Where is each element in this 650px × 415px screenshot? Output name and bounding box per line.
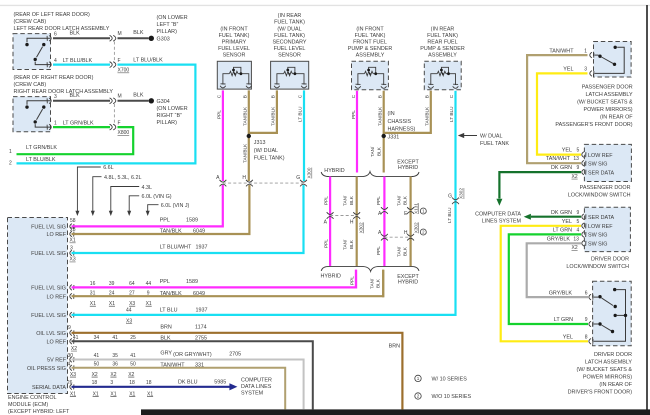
svg-text:(IN REAR: (IN REAR (278, 13, 302, 19)
svg-text:TAN/BLK: TAN/BLK (424, 106, 429, 126)
top border line (0, 4, 650, 6)
svg-text:BLK: BLK (403, 195, 408, 205)
svg-text:FUEL TANK: FUEL TANK (480, 141, 509, 147)
svg-text:3: 3 (54, 94, 57, 100)
svg-text:5V REF: 5V REF (47, 358, 67, 364)
svg-text:HARNESS): HARNESS) (388, 127, 416, 133)
svg-text:64: 64 (129, 281, 135, 287)
svg-text:41: 41 (112, 335, 118, 341)
svg-text:F: F (118, 58, 121, 64)
svg-text:50: 50 (94, 362, 100, 368)
wire TAN/BLK below brace (382, 270, 384, 298)
svg-text:27: 27 (129, 290, 135, 296)
svg-text:DRIVER DOOR: DRIVER DOOR (594, 352, 632, 358)
svg-text:X1: X1 (90, 301, 96, 307)
svg-text:PASSENGER DOOR: PASSENGER DOOR (582, 84, 633, 90)
svg-text:41: 41 (130, 353, 136, 359)
svg-text:4.8L, 5.3L, 6.2L: 4.8L, 5.3L, 6.2L (104, 175, 141, 181)
passenger door lock/window switch box (584, 144, 631, 181)
svg-text:BLK: BLK (133, 30, 144, 36)
svg-text:PPL: PPL (217, 110, 222, 119)
svg-text:PILLAR): PILLAR) (157, 120, 178, 126)
svg-text:M: M (118, 94, 122, 100)
secondary fuel level sensor box (271, 61, 309, 89)
svg-text:9: 9 (577, 210, 580, 216)
primary sensor pin C (220, 84, 226, 88)
svg-text:6.0L (VIN G): 6.0L (VIN G) (142, 194, 172, 200)
svg-text:X2: X2 (71, 346, 77, 352)
svg-text:H: H (350, 219, 354, 225)
svg-text:LT BLU: LT BLU (297, 106, 302, 122)
svg-text:LT BLU: LT BLU (160, 307, 178, 313)
svg-text:X1: X1 (147, 391, 153, 397)
svg-text:M: M (118, 31, 122, 37)
svg-text:1937: 1937 (196, 307, 208, 313)
svg-text:X2: X2 (110, 372, 116, 378)
latch1 pin 6 connector (47, 36, 51, 42)
wire PPL sensor1 C down (222, 90, 224, 181)
splice J331 (382, 134, 386, 138)
lower brace hybrid/except hybrid (321, 266, 419, 271)
svg-text:FUEL LVL SIG: FUEL LVL SIG (31, 251, 66, 257)
svg-text:(ON LOWER: (ON LOWER (157, 106, 188, 112)
wire TAN/BLK hybrid branch (356, 177, 358, 267)
svg-text:4: 4 (54, 58, 57, 64)
svg-text:LO REF: LO REF (47, 340, 67, 346)
svg-text:X3: X3 (70, 372, 76, 378)
front pump rheostat (358, 67, 384, 85)
svg-text:6.0L (VIN J): 6.0L (VIN J) (161, 203, 190, 209)
passenger switch pin 5 LOW REF (582, 152, 586, 158)
wire DK GRN passenger switch to data lines arrow (499, 172, 581, 198)
svg-text:(W/ DUAL: (W/ DUAL (254, 148, 278, 154)
svg-text:DATA LINES: DATA LINES (241, 384, 272, 390)
svg-text:1589: 1589 (186, 218, 198, 224)
svg-text:DK BLU: DK BLU (178, 380, 198, 386)
svg-text:BLK: BLK (376, 278, 381, 288)
inline connector F X800 (110, 124, 116, 130)
svg-text:X302: X302 (358, 222, 363, 233)
right rear door latch assembly box (13, 97, 51, 132)
passenger door latch assembly box (594, 42, 632, 78)
svg-text:X302: X302 (459, 188, 464, 199)
svg-text:DK GRN: DK GRN (551, 165, 572, 171)
latch2 switch (27, 101, 51, 127)
svg-text:B: B (424, 95, 429, 98)
svg-text:GRY/BLK: GRY/BLK (549, 290, 573, 296)
driver latch switch (594, 290, 626, 342)
svg-text:1: 1 (54, 121, 57, 127)
svg-text:24: 24 (109, 290, 115, 296)
wire PPL front pump C down to brace (356, 91, 358, 173)
svg-text:C: C (297, 94, 302, 98)
svg-text:1174: 1174 (195, 324, 207, 330)
driver door lock/window switch box (584, 207, 630, 251)
svg-text:4: 4 (68, 362, 71, 368)
svg-text:RIGHT REAR DOOR LATCH ASSEMBLY: RIGHT REAR DOOR LATCH ASSEMBLY (14, 89, 114, 95)
svg-text:30: 30 (68, 353, 74, 359)
svg-text:(W/ BUCKET SEATS &: (W/ BUCKET SEATS & (577, 99, 633, 105)
svg-text:X800: X800 (118, 130, 130, 136)
wire TAN/WHT 331 row10 pins 4/50/36/50 (72, 368, 286, 410)
svg-text:LT BLU/WHT: LT BLU/WHT (160, 245, 192, 251)
svg-text:5: 5 (577, 148, 580, 154)
svg-text:LATCH ASSEMBLY: LATCH ASSEMBLY (585, 92, 633, 98)
svg-text:HYBRID: HYBRID (321, 274, 341, 280)
inline connector M (110, 35, 116, 41)
svg-text:FUEL TANK): FUEL TANK) (254, 156, 285, 162)
svg-text:PUMP & SENDER: PUMP & SENDER (348, 46, 393, 52)
inline connector G X302 on LT BLU (452, 198, 459, 205)
svg-text:SW SIG: SW SIG (588, 233, 607, 239)
passenger latch switch (595, 47, 625, 73)
svg-text:B: B (377, 95, 382, 98)
driver latch pin 6 connector (589, 294, 593, 300)
svg-text:LEFT REAR DOOR LATCH ASSEMBLY: LEFT REAR DOOR LATCH ASSEMBLY (14, 26, 110, 32)
svg-text:COMPUTER: COMPUTER (241, 377, 272, 383)
wire PPL 1589 row1 pin 58 (72, 185, 223, 226)
wire LT GRN driver switch SW SIG to driver latch pin9 (509, 234, 588, 324)
svg-text:YEL: YEL (562, 219, 572, 225)
svg-text:6: 6 (54, 31, 57, 37)
svg-text:PUMP & SENDER: PUMP & SENDER (420, 46, 465, 52)
svg-text:LOW REF: LOW REF (588, 153, 613, 159)
ECM pin connectors (70, 224, 74, 390)
primary sensor rheostat (223, 67, 249, 84)
svg-text:(CREW CAB): (CREW CAB) (14, 19, 47, 25)
svg-text:LEFT “B”: LEFT “B” (157, 22, 179, 28)
wire TAN/BLK sensor1 B down (248, 90, 250, 181)
inline connector A/H X302 hybrid (330, 215, 357, 217)
svg-text:G304: G304 (157, 99, 170, 105)
svg-text:FUEL LEVEL: FUEL LEVEL (218, 46, 250, 52)
svg-text:6: 6 (585, 290, 588, 296)
wire BLK 2755 row8 pins 41/34/41/25 (72, 341, 313, 409)
svg-text:LT BLU/BLK: LT BLU/BLK (63, 58, 93, 64)
svg-text:TAN/BLK: TAN/BLK (242, 106, 247, 126)
passenger latch pin 1 connector (590, 52, 594, 58)
svg-text:X1: X1 (93, 391, 99, 397)
svg-text:W/O 10 SERIES: W/O 10 SERIES (432, 394, 472, 400)
svg-text:H: H (242, 175, 246, 181)
svg-text:6049: 6049 (193, 291, 205, 297)
upper brace hybrid/except hybrid (321, 172, 419, 177)
svg-text:X2: X2 (92, 372, 98, 378)
svg-text:3: 3 (584, 66, 587, 72)
front pump pin C (355, 84, 361, 88)
wire LT BLU/WHT 1937 row3 pin 3 (72, 185, 304, 253)
svg-text:BLK: BLK (349, 239, 354, 249)
svg-text:SYSTEM: SYSTEM (241, 390, 264, 396)
svg-text:PASSENGER'S FRONT DOOR): PASSENGER'S FRONT DOOR) (555, 122, 632, 128)
wire LT GRN/BLK latch2 to X800 (53, 126, 110, 128)
wire PPL hybrid branch (329, 177, 331, 267)
svg-text:X1: X1 (129, 391, 135, 397)
svg-text:X300: X300 (307, 167, 312, 178)
wire GRY 2705 row9 pins 30/41/35/41 (72, 360, 304, 410)
svg-text:44: 44 (146, 281, 152, 287)
svg-text:X1: X1 (70, 238, 76, 244)
svg-text:(IN REAR OF: (IN REAR OF (600, 114, 633, 120)
svg-text:SENSOR: SENSOR (223, 53, 246, 59)
svg-text:C: C (449, 94, 454, 98)
svg-text:TAN/BLK: TAN/BLK (242, 143, 247, 163)
svg-text:PPL: PPL (324, 196, 329, 205)
svg-text:X131: X131 (414, 203, 419, 214)
svg-text:6049: 6049 (193, 229, 205, 235)
wire YEL passenger latch pin3 to switch pin5 (537, 73, 588, 154)
svg-text:LOW REF: LOW REF (588, 224, 613, 230)
svg-text:SW SIG: SW SIG (588, 242, 607, 248)
svg-text:TAN/BLK: TAN/BLK (160, 291, 182, 297)
svg-text:16: 16 (90, 281, 96, 287)
svg-text:1: 1 (9, 149, 12, 155)
svg-text:2705: 2705 (229, 352, 241, 358)
svg-text:HYBRID: HYBRID (398, 165, 418, 171)
latch1 switch (27, 38, 51, 64)
svg-text:OIL PRESS SIG: OIL PRESS SIG (27, 366, 66, 372)
rear pump pin C (453, 84, 459, 88)
svg-text:W/ DUAL: W/ DUAL (480, 134, 502, 140)
svg-text:HYBRID: HYBRID (324, 168, 344, 174)
svg-text:DRIVER'S FRONT DOOR): DRIVER'S FRONT DOOR) (568, 389, 633, 395)
svg-text:(OR GRY/WHT): (OR GRY/WHT) (173, 352, 212, 358)
svg-text:FUEL TANK): FUEL TANK) (355, 33, 386, 39)
wire PPL except-hybrid branch (383, 177, 385, 267)
wire PPL 1589 row4 pins 16/39/64/44 (72, 270, 357, 288)
driver latch caption (568, 352, 633, 396)
svg-text:LATCH ASSEMBLY: LATCH ASSEMBLY (585, 359, 633, 365)
svg-text:W/ 10 SERIES: W/ 10 SERIES (432, 377, 468, 383)
svg-text:5985: 5985 (214, 380, 226, 386)
wire DK BLU 5985 row11 pins 26/18/3/18/18 (72, 386, 230, 388)
inline connector A/E X131 (1) (381, 207, 388, 214)
svg-text:PPL: PPL (376, 196, 381, 205)
bottom border bar (141, 409, 650, 415)
svg-text:18: 18 (146, 380, 152, 386)
svg-text:A: A (324, 219, 328, 225)
svg-text:1: 1 (417, 376, 420, 381)
svg-text:8: 8 (585, 335, 588, 341)
front pump pin B (381, 84, 387, 88)
wire TAN/BLK except-hybrid branch (410, 177, 412, 267)
svg-text:LOCK/WINDOW SWITCH: LOCK/WINDOW SWITCH (568, 192, 631, 198)
callout 6.0L VIN G (129, 196, 139, 212)
svg-text:2: 2 (417, 394, 420, 399)
svg-text:GRY: GRY (160, 350, 172, 356)
svg-text:X1: X1 (146, 301, 152, 307)
callout 6.6L (77, 167, 100, 212)
dashed connector line M-F (113, 104, 115, 124)
svg-text:PPL: PPL (160, 279, 170, 285)
svg-text:(EXCEPT HYBRID: LEFT: (EXCEPT HYBRID: LEFT (8, 409, 70, 415)
front fuel pump and sender assembly box (352, 61, 389, 90)
svg-text:BRN: BRN (389, 344, 400, 350)
wire TAN/BLK sensor2 B down to J313 (249, 90, 277, 132)
svg-text:1589: 1589 (186, 279, 198, 285)
svg-text:5: 5 (577, 219, 580, 225)
inline connector row X300: A H G (223, 182, 304, 184)
svg-text:ENGINE CONTROL: ENGINE CONTROL (8, 395, 57, 401)
svg-text:FUEL TANK): FUEL TANK) (274, 20, 305, 26)
svg-text:YEL: YEL (562, 148, 572, 154)
svg-text:31: 31 (90, 290, 96, 296)
svg-text:9: 9 (585, 317, 588, 323)
wire TAN/BLK 6049 row2 pin 28 (72, 185, 250, 234)
svg-text:PPL: PPL (351, 110, 356, 119)
secondary fuel level sensor labels (272, 13, 306, 59)
rear pump and sender labels (420, 26, 465, 58)
front pump and sender labels (348, 26, 393, 58)
svg-text:(IN FRONT: (IN FRONT (220, 26, 248, 32)
right border line (646, 5, 648, 412)
svg-text:9: 9 (68, 325, 71, 331)
callout 4.3L (111, 187, 139, 212)
wire LT GRN/BLK from X800 to pin 1 (17, 127, 134, 154)
wire GRY/BLK driver switch SW SIG to driver latch pin6 (527, 243, 588, 297)
svg-text:PRIMARY: PRIMARY (222, 40, 247, 46)
svg-text:RIGHT “B”: RIGHT “B” (157, 113, 183, 119)
passenger switch pin 9 SER DATA (582, 169, 586, 175)
svg-text:LOCK/WINDOW SWITCH: LOCK/WINDOW SWITCH (566, 264, 629, 270)
latch2 pin 1 connector (47, 124, 51, 130)
ECM pin labels (27, 225, 67, 391)
svg-text:TAN/WHT: TAN/WHT (546, 156, 571, 162)
svg-text:6.6L: 6.6L (103, 165, 114, 171)
svg-text:(REAR OF RIGHT REAR DOOR): (REAR OF RIGHT REAR DOOR) (14, 75, 94, 81)
svg-text:LT GRN/BLK: LT GRN/BLK (26, 145, 57, 151)
wire LT BLU rear pump C down (454, 91, 456, 205)
svg-text:(IN: (IN (388, 111, 395, 117)
svg-text:SER DATA: SER DATA (588, 170, 615, 176)
svg-text:POWER MIRRORS): POWER MIRRORS) (583, 107, 632, 113)
inline connector M (110, 98, 116, 104)
svg-text:X2: X2 (572, 245, 578, 251)
svg-text:(IN REAR OF: (IN REAR OF (599, 382, 632, 388)
svg-text:G: G (448, 194, 452, 200)
svg-text:LT BLU: LT BLU (449, 106, 454, 122)
svg-text:BLK: BLK (70, 93, 81, 99)
dashed connector line M-F (113, 42, 115, 62)
latch2 pin 3 connector (47, 98, 51, 104)
svg-text:4: 4 (577, 228, 580, 234)
latch1 pin 4 connector (47, 62, 51, 68)
svg-text:28: 28 (70, 227, 76, 233)
svg-text:YEL: YEL (563, 66, 573, 72)
primary sensor pin B (246, 84, 252, 88)
svg-text:(W/ BUCKET SEATS &: (W/ BUCKET SEATS & (576, 367, 632, 373)
svg-text:X3: X3 (70, 257, 76, 263)
svg-text:X2: X2 (572, 174, 578, 180)
svg-text:2: 2 (422, 230, 425, 235)
svg-text:PPL: PPL (350, 276, 355, 285)
svg-text:COMPUTER DATA: COMPUTER DATA (475, 211, 521, 217)
svg-text:C: C (351, 94, 356, 98)
svg-text:(IN FRONT: (IN FRONT (356, 26, 384, 32)
wire TAN/BLK front pump B down to brace (383, 91, 385, 173)
svg-text:3: 3 (110, 380, 113, 386)
svg-text:X3: X3 (129, 301, 135, 307)
svg-text:SENSOR: SENSOR (278, 53, 301, 59)
svg-text:34: 34 (94, 335, 100, 341)
svg-text:G303: G303 (157, 36, 170, 42)
svg-text:35: 35 (112, 353, 118, 359)
svg-text:F: F (118, 120, 121, 126)
svg-text:1: 1 (422, 209, 425, 214)
svg-text:18: 18 (92, 380, 98, 386)
svg-text:FUEL TANK): FUEL TANK) (219, 33, 250, 39)
svg-text:1: 1 (584, 48, 587, 54)
svg-text:ASSEMBLY: ASSEMBLY (356, 53, 385, 59)
driver latch pin 9 connector (589, 321, 593, 327)
svg-text:LT BLU/BLK: LT BLU/BLK (26, 157, 56, 163)
svg-text:X302: X302 (414, 222, 419, 233)
rear fuel pump and sender assembly box (424, 61, 461, 90)
svg-text:DRIVER DOOR: DRIVER DOOR (591, 257, 629, 263)
svg-text:MODULE (ECM): MODULE (ECM) (8, 402, 48, 408)
svg-text:TAN/WHT: TAN/WHT (160, 362, 185, 368)
svg-text:B: B (242, 95, 247, 98)
svg-text:G: G (296, 175, 300, 181)
svg-text:X1: X1 (70, 391, 76, 397)
svg-text:(IN REAR: (IN REAR (431, 26, 455, 32)
svg-text:FUEL LEVEL: FUEL LEVEL (274, 46, 306, 52)
svg-text:PILLAR): PILLAR) (157, 29, 178, 35)
svg-text:41: 41 (94, 353, 100, 359)
wire TAN/BLK 6049 row5 pins 31/24/27/9 (72, 270, 384, 297)
svg-text:26: 26 (67, 380, 73, 386)
svg-text:39: 39 (109, 281, 115, 287)
svg-text:2755: 2755 (195, 335, 207, 341)
svg-text:SW SIG: SW SIG (588, 161, 607, 167)
svg-text:25: 25 (130, 335, 136, 341)
svg-text:TAN/: TAN/ (397, 246, 402, 257)
secondary sensor pin B (274, 84, 280, 88)
wire TAN/BLK rear pump B down to J331 (384, 91, 431, 133)
svg-text:FUEL LVL SIG: FUEL LVL SIG (31, 286, 66, 292)
wire DK GRN driver switch SER DATA to arrow (531, 216, 581, 218)
svg-text:X1: X1 (109, 301, 115, 307)
svg-text:X1: X1 (110, 391, 116, 397)
wire YEL driver switch LOW REF to driver latch pin8 (501, 226, 588, 341)
W/ DUAL FUEL TANK callout arrow (460, 135, 478, 137)
svg-text:BLK: BLK (70, 31, 81, 37)
wire BLK latch2 to X-M (53, 100, 110, 102)
svg-text:LT GRN: LT GRN (553, 228, 572, 234)
svg-text:SECONDARY: SECONDARY (272, 40, 306, 46)
svg-text:H: H (404, 230, 408, 236)
svg-text:LO REF: LO REF (47, 294, 67, 300)
svg-text:J313: J313 (254, 140, 266, 146)
svg-text:LT GRN: LT GRN (554, 317, 573, 323)
wire PPL below brace (355, 270, 357, 289)
svg-text:CHASSIS: CHASSIS (388, 119, 412, 125)
svg-text:331: 331 (195, 362, 204, 368)
svg-text:50: 50 (130, 362, 136, 368)
svg-text:PPL: PPL (160, 218, 170, 224)
svg-text:REAR FUEL: REAR FUEL (427, 40, 457, 46)
svg-text:BLK: BLK (376, 146, 381, 156)
svg-text:PPL: PPL (376, 246, 381, 255)
svg-text:TAN/BLK: TAN/BLK (271, 106, 276, 126)
driver latch pin 8 connector (589, 339, 593, 345)
svg-text:13: 13 (573, 237, 579, 243)
svg-text:BLK: BLK (403, 246, 408, 256)
left rear door latch assembly box (13, 34, 51, 70)
passenger latch pin 3 connector (590, 71, 594, 77)
svg-text:FRONT FUEL: FRONT FUEL (353, 40, 387, 46)
svg-text:ASSEMBLY: ASSEMBLY (428, 53, 457, 59)
